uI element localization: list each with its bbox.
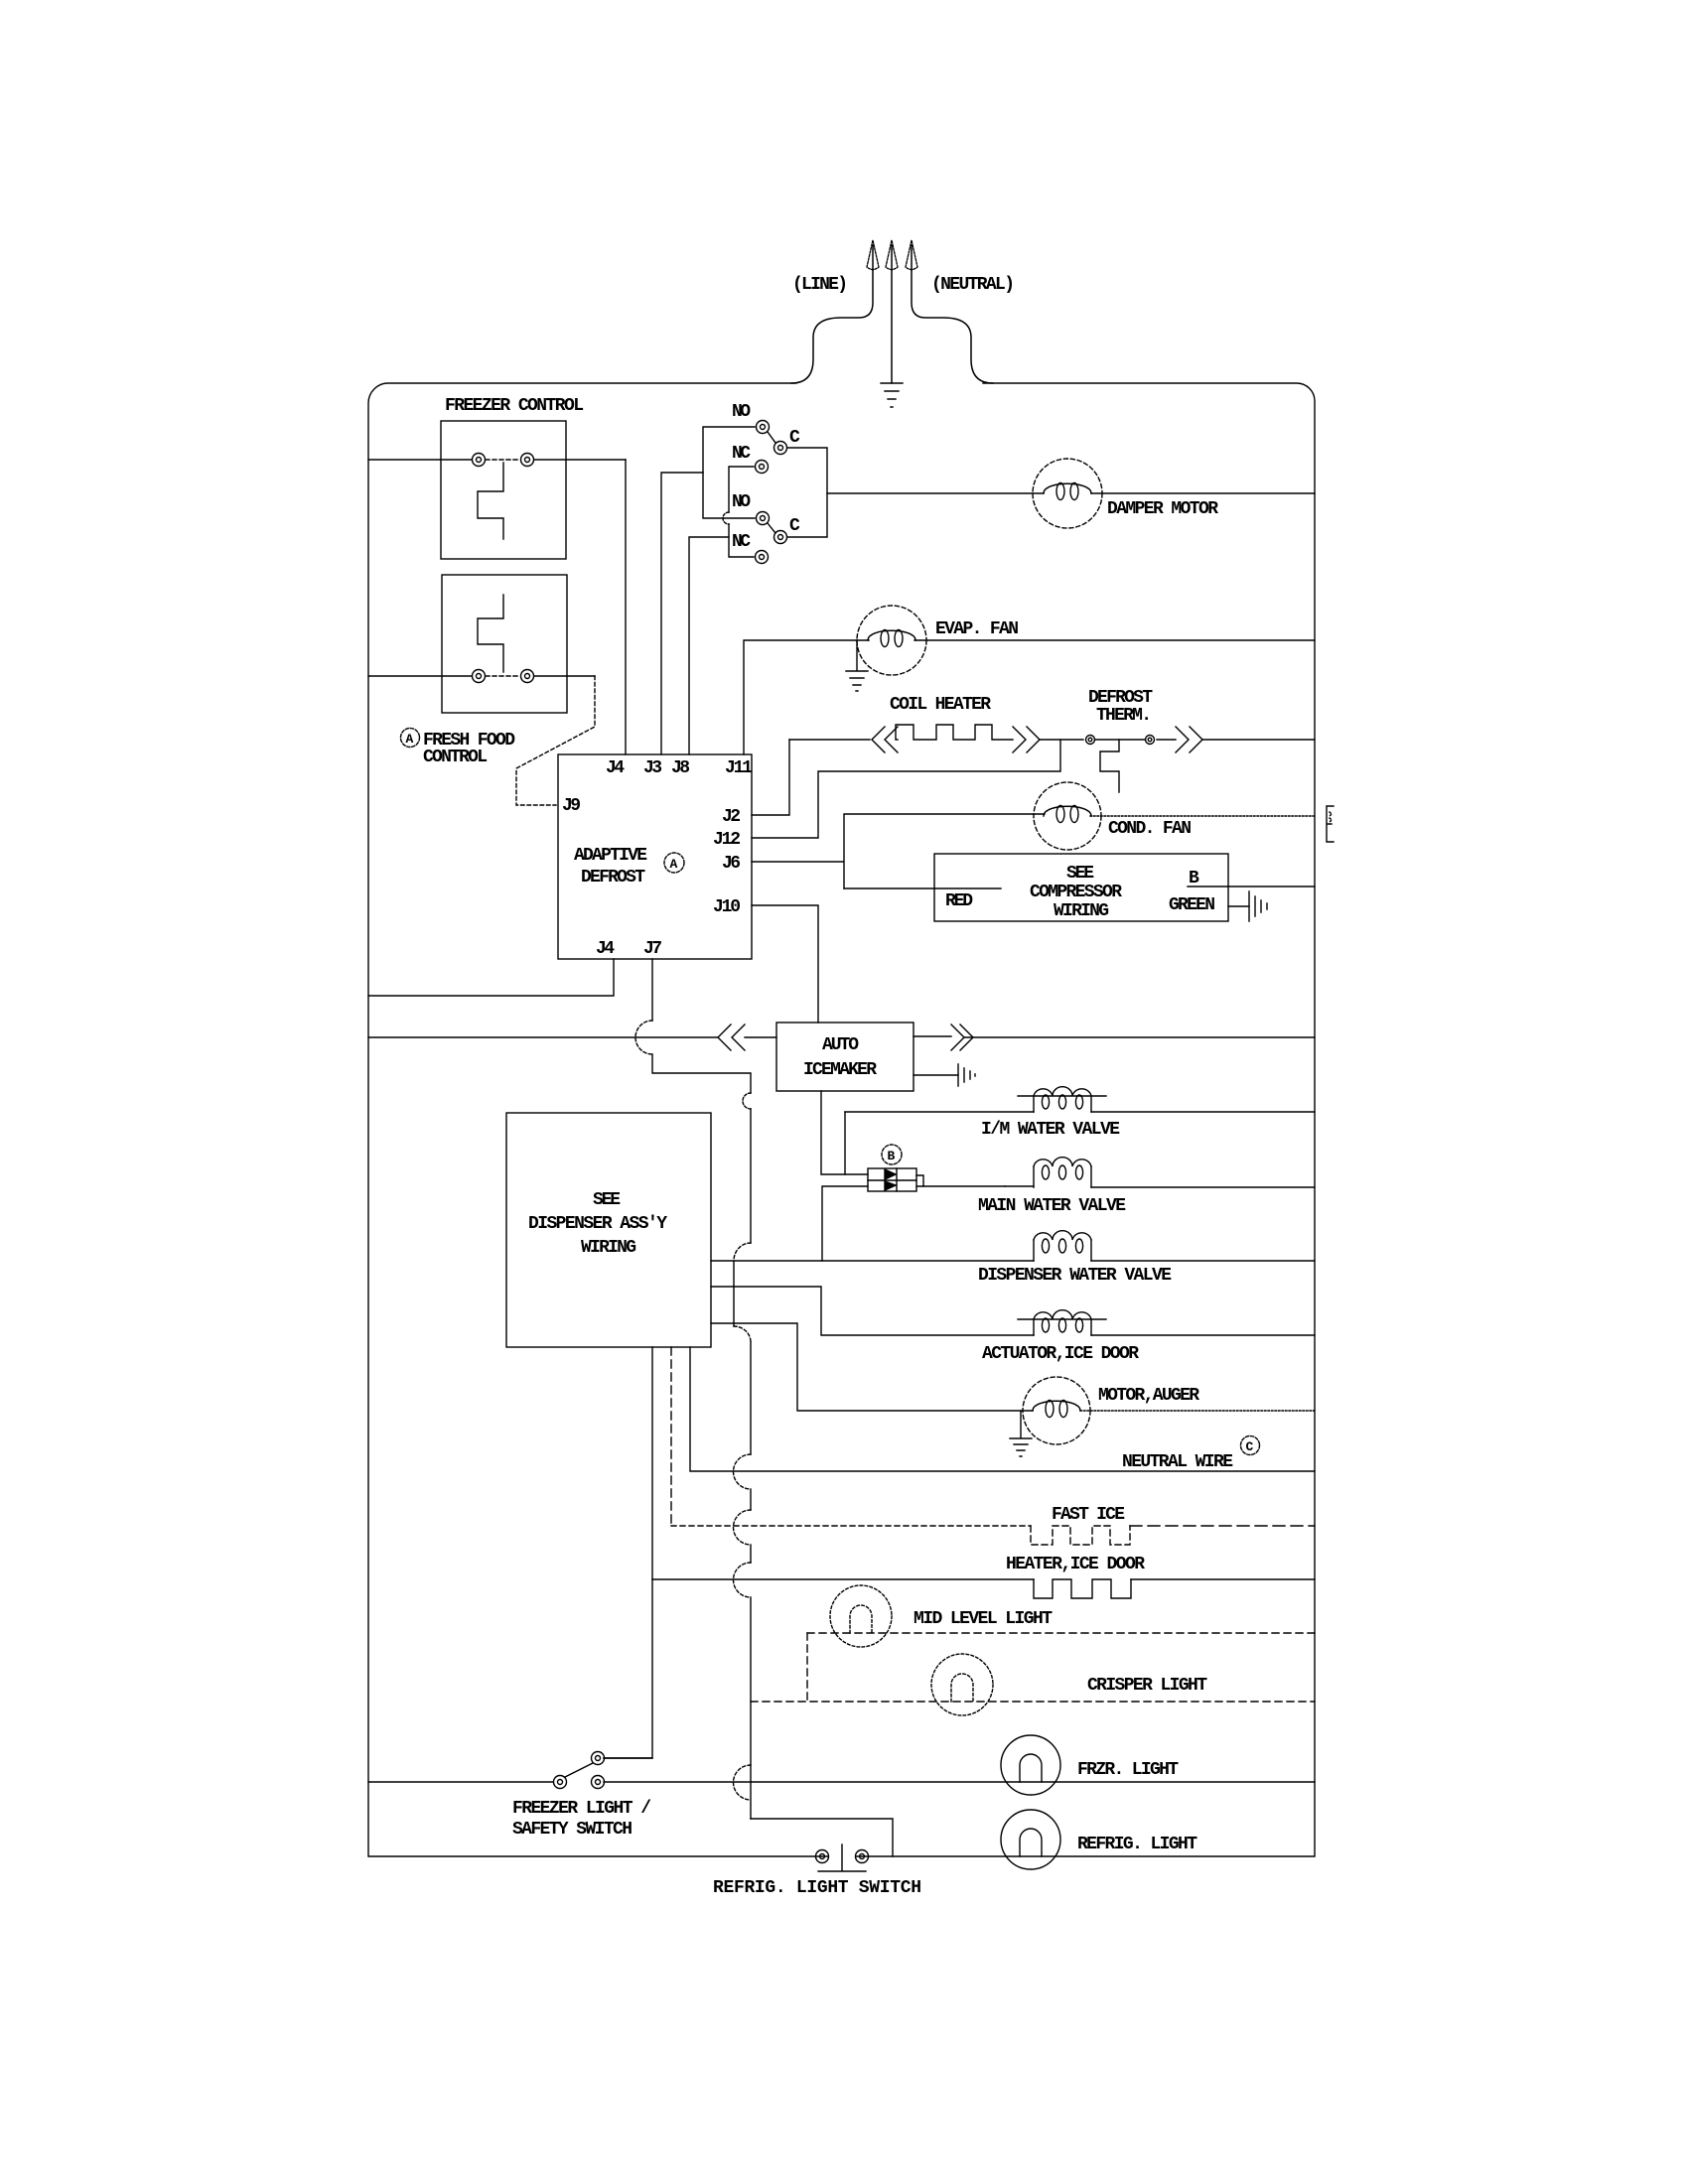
- actuator ice door coil: [1034, 1319, 1091, 1335]
- svg-text:DISPENSER WATER VALVE: DISPENSER WATER VALVE: [978, 1266, 1172, 1286]
- compressor wiring box: [934, 854, 1228, 921]
- fresh food contact left: [473, 670, 486, 683]
- door switch 1 C contact: [774, 442, 787, 455]
- svg-text:DAMPER MOTOR: DAMPER MOTOR: [1107, 499, 1218, 519]
- dashed wire to J9 of adaptive defrost: [516, 676, 595, 805]
- door switch 2 NC contact: [756, 551, 769, 564]
- crisper light dashed wire: [751, 1701, 1315, 1703]
- wire safety switch upper contact to dispenser bundle: [604, 1757, 652, 1759]
- freezer thermostat 1 sensing staircase: [478, 463, 503, 539]
- door switch 2 NO contact: [757, 512, 770, 525]
- svg-text:THERM.: THERM.: [1096, 706, 1152, 726]
- fresh food contact right: [521, 670, 534, 683]
- svg-text:NEUTRAL WIRE: NEUTRAL WIRE: [1122, 1452, 1233, 1472]
- wire actuator to right border: [1091, 1334, 1315, 1336]
- svg-text:GREEN: GREEN: [1169, 895, 1215, 915]
- damper motor coil arch: [1044, 483, 1091, 493]
- connector chevrons icemaker left: [718, 1024, 745, 1050]
- freezer thermostat 1 contact left: [473, 454, 486, 467]
- svg-text:MAIN WATER VALVE: MAIN WATER VALVE: [978, 1196, 1126, 1216]
- svg-text:WIRING: WIRING: [581, 1238, 636, 1258]
- svg-text:ADAPTIVE: ADAPTIVE: [574, 846, 647, 866]
- circled A fresh food: [401, 729, 420, 748]
- fresh food sensing staircase: [478, 595, 503, 672]
- diode pack right tab: [916, 1175, 923, 1186]
- freezer control thermostat box 1: [441, 421, 566, 559]
- wire common to damper motor: [827, 492, 1044, 494]
- hop arc bundle over neutral wire: [734, 1454, 752, 1489]
- fresh food control thermostat box 2: [442, 575, 567, 713]
- svg-text:DEFROST: DEFROST: [581, 868, 645, 887]
- auger motor ground: [1010, 1411, 1032, 1456]
- circled A adaptive defrost: [664, 853, 684, 873]
- svg-text:FRZR. LIGHT: FRZR. LIGHT: [1077, 1760, 1179, 1780]
- bundle wire x756 down to neutral hop: [750, 1342, 752, 1454]
- wire fresh food contact to J9 dashes: [534, 675, 595, 677]
- door switch J3 branch wire: [661, 473, 703, 754]
- dispenser box bottom wire to safety switch: [651, 1347, 653, 1579]
- wire chevrons to icemaker box: [745, 1036, 776, 1038]
- refrig light lamp circle: [1001, 1810, 1060, 1869]
- svg-text:MOTOR,AUGER: MOTOR,AUGER: [1098, 1386, 1199, 1406]
- mid level light filament: [850, 1605, 872, 1633]
- coil heater resistive element: [896, 725, 1013, 740]
- fast ice dashed wire to right border: [1130, 1525, 1315, 1527]
- svg-text:DISPENSER ASS'Y: DISPENSER ASS'Y: [528, 1214, 667, 1234]
- mid level dashed drop to crisper wire: [806, 1633, 808, 1702]
- safety switch upper contact: [592, 1752, 605, 1765]
- wire J4 vertical drop to adaptive defrost: [625, 460, 627, 754]
- svg-text:COMPRESSOR: COMPRESSOR: [1030, 883, 1122, 902]
- refrig light switch right contact: [856, 1850, 869, 1863]
- svg-text:(NEUTRAL): (NEUTRAL): [931, 275, 1015, 295]
- wire from left border to fresh food contacts: [368, 675, 472, 677]
- adaptive defrost control box: [558, 754, 752, 959]
- wire J6 node to compressor RED: [844, 887, 1001, 889]
- wire icemaker right to chevrons: [914, 1035, 951, 1037]
- circled B diode pack: [882, 1145, 902, 1164]
- dotted wire auger motor to right border: [1080, 1410, 1315, 1412]
- wire between defrost therm contacts: [1095, 739, 1145, 741]
- connector chevrons icemaker right: [951, 1024, 973, 1050]
- svg-text:J8: J8: [671, 758, 690, 778]
- I/M water valve coil: [1034, 1096, 1091, 1112]
- freezer thermostat 1 contact right: [521, 454, 534, 467]
- wire chevrons to defrost therm: [1040, 739, 1083, 741]
- frzr light lamp circle: [1001, 1735, 1060, 1795]
- hop arc bundle over fast ice wire: [734, 1510, 752, 1545]
- svg-text:REFRIG. LIGHT SWITCH: REFRIG. LIGHT SWITCH: [713, 1878, 921, 1898]
- hop arc J7 wire over icemaker wire: [635, 1021, 652, 1054]
- frzr light filament: [1020, 1754, 1042, 1782]
- wire compressor green to ground: [1228, 905, 1249, 907]
- icemaker feed wire from left border: [368, 1036, 718, 1038]
- junction drop from coil heater wire to J12 feed: [752, 740, 1060, 838]
- svg-text:NO: NO: [732, 402, 751, 422]
- svg-text:COIL HEATER: COIL HEATER: [890, 695, 991, 715]
- freezer light wire to frzr lamp and border: [604, 1781, 1315, 1783]
- svg-text:RED: RED: [945, 891, 973, 911]
- connector chevrons coil heater left: [872, 727, 898, 752]
- safety switch blade: [565, 1763, 593, 1777]
- svg-text:C: C: [789, 516, 800, 536]
- dispenser box bottom dashed wire to fast ice: [670, 1347, 672, 1526]
- see dispenser assy wiring box: [506, 1113, 711, 1347]
- svg-text:J12: J12: [713, 830, 741, 850]
- wire J6 to cond fan and compressor: [752, 814, 1045, 888]
- wire evap fan to right border: [914, 639, 1315, 641]
- svg-text:SAFETY SWITCH: SAFETY SWITCH: [512, 1820, 633, 1840]
- wire icemaker bottom to diode pack: [821, 1091, 868, 1174]
- svg-text:C: C: [1246, 1439, 1254, 1454]
- diode pack body: [868, 1168, 916, 1191]
- svg-text:COND. FAN: COND. FAN: [1108, 819, 1192, 839]
- svg-text:B: B: [888, 1149, 896, 1163]
- bundle wire between hops: [750, 1545, 752, 1563]
- wire J11 to evap fan: [744, 640, 869, 754]
- wire J4 bottom to left border: [368, 959, 614, 996]
- damper motor coil loops: [1056, 483, 1064, 500]
- coil heater wire left segment: [789, 739, 870, 741]
- svg-text:FREEZER LIGHT /: FREEZER LIGHT /: [512, 1799, 651, 1819]
- cond fan circle: [1034, 782, 1101, 850]
- wire J7 bottom to bundle: [651, 959, 653, 1021]
- safety switch moving contact: [554, 1776, 567, 1789]
- door switch 2 blade: [768, 523, 775, 533]
- door switch 1 wire NO to vertical: [703, 427, 755, 518]
- refrig light filament: [1020, 1829, 1042, 1856]
- hop arc bundle over heater wire: [734, 1563, 752, 1597]
- door switch J8 branch wire: [689, 537, 729, 754]
- motor auger coil arch: [1033, 1401, 1080, 1411]
- svg-text:A: A: [406, 732, 414, 747]
- mid level light lamp circle: [830, 1585, 892, 1647]
- wire I/M valve to right border: [1091, 1111, 1315, 1113]
- wire icemaker to ground right side: [914, 1074, 958, 1076]
- cond fan coil loops: [1056, 806, 1064, 823]
- freezer thermostat 1 dashed contact link: [486, 459, 520, 461]
- crisper light lamp circle: [931, 1654, 993, 1715]
- svg-text:ACTUATOR,ICE DOOR: ACTUATOR,ICE DOOR: [982, 1344, 1139, 1364]
- hop arc bundle over freezer light wire: [734, 1765, 752, 1800]
- svg-text:ICEMAKER: ICEMAKER: [803, 1060, 877, 1080]
- wire compressor B to right border: [1188, 886, 1315, 887]
- door switch 1 blade: [768, 432, 775, 443]
- svg-text:J2: J2: [722, 807, 741, 827]
- wire dispenser box to actuator ice door: [711, 1287, 1034, 1335]
- plug prong NEUTRAL: [912, 270, 993, 383]
- hop arc empty on bundle: [743, 1093, 751, 1109]
- border outer rounded rectangle: [368, 383, 1315, 1856]
- svg-text:SEE: SEE: [1066, 864, 1094, 884]
- svg-text:FREEZER CONTROL: FREEZER CONTROL: [445, 396, 584, 416]
- refrig light switch plunger: [818, 1844, 866, 1871]
- svg-text:I/M WATER VALVE: I/M WATER VALVE: [981, 1120, 1120, 1140]
- fast ice heater element dashed: [1031, 1526, 1130, 1545]
- plug prong LINE: [791, 270, 873, 383]
- svg-text:SEE: SEE: [593, 1190, 621, 1210]
- motor auger coil loops: [1046, 1401, 1054, 1418]
- ground symbol below center prong: [881, 383, 903, 407]
- svg-text:NO: NO: [732, 492, 751, 512]
- wire dispenser valve from box to coil: [711, 1260, 1034, 1262]
- wire I/M valve line down to diode node: [844, 1112, 846, 1174]
- connector chevrons defrost therm right: [1176, 727, 1202, 752]
- svg-text:J6: J6: [722, 854, 741, 874]
- refrig light switch left contact: [816, 1850, 829, 1863]
- svg-text:CRISPER LIGHT: CRISPER LIGHT: [1087, 1676, 1207, 1696]
- wire damper motor to right border: [1091, 492, 1315, 494]
- wire dispenser box to auger motor: [711, 1323, 1033, 1411]
- svg-text:B: B: [1189, 869, 1199, 888]
- defrost therm capillary staircase: [1100, 740, 1119, 792]
- svg-text:A: A: [670, 857, 678, 872]
- wire diode bottom row to dispenser valve line: [822, 1186, 868, 1261]
- wire J2 to coil heater line: [752, 740, 789, 815]
- jog arc bundle back to x756: [734, 1326, 751, 1342]
- defrost therm contact 1: [1086, 736, 1095, 745]
- evap fan coil arch: [868, 630, 915, 640]
- wire main valve left stub: [1005, 1185, 1034, 1187]
- bundle wire to crisper junction and down: [750, 1597, 752, 1819]
- diode triangle top: [885, 1169, 896, 1179]
- evap fan circle: [857, 606, 926, 675]
- bundle wire segment at x739: [733, 1261, 735, 1326]
- damper motor circle: [1033, 459, 1102, 528]
- diode triangle bottom: [885, 1181, 896, 1190]
- mid level light dashed wire: [807, 1632, 1315, 1634]
- svg-text:J7: J7: [643, 939, 662, 959]
- fresh food dashed contact link: [486, 675, 520, 677]
- evap fan coil loops: [881, 630, 889, 647]
- svg-text:J3: J3: [643, 758, 662, 778]
- svg-text:MID LEVEL LIGHT: MID LEVEL LIGHT: [914, 1609, 1053, 1629]
- svg-text:J9: J9: [562, 796, 581, 816]
- safety switch right contact: [592, 1776, 605, 1789]
- ground right-facing at icemaker: [958, 1064, 975, 1086]
- svg-text:WIRING: WIRING: [1054, 901, 1109, 921]
- svg-text:HEATER,ICE DOOR: HEATER,ICE DOOR: [1006, 1555, 1145, 1574]
- defrost therm contact 2: [1146, 736, 1155, 745]
- bundle wire from J7 down with jogs: [750, 1109, 752, 1243]
- door switch 1 NC contact: [756, 461, 769, 474]
- bundle wire bottom to refrig light wire: [751, 1819, 893, 1856]
- wire defrost therm to right border: [1202, 739, 1315, 741]
- wire J10 to auto icemaker top: [752, 905, 818, 1023]
- plug prong center: [891, 270, 893, 383]
- cond fan coil arch: [1044, 806, 1091, 816]
- svg-text:J4: J4: [606, 758, 625, 778]
- wire icemaker chevrons to right border: [964, 1036, 1315, 1038]
- dispenser water valve coil: [1034, 1240, 1091, 1261]
- dispenser box bottom wire to neutral: [690, 1347, 1315, 1471]
- svg-text:J11: J11: [725, 758, 753, 778]
- wire I/M valve left stub: [845, 1111, 1034, 1113]
- svg-text:EVAP. FAN: EVAP. FAN: [935, 619, 1019, 639]
- evap fan ground: [846, 640, 868, 691]
- wire main valve to right border: [1091, 1186, 1315, 1188]
- svg-text:CONTROL: CONTROL: [423, 748, 488, 767]
- freezer light safety switch wire from border: [368, 1781, 553, 1783]
- heater ice door wire left: [652, 1578, 1034, 1580]
- wire dispenser valve to right border: [1091, 1260, 1315, 1262]
- motor auger circle: [1023, 1377, 1090, 1444]
- svg-text:C: C: [789, 428, 800, 448]
- svg-text:FAST ICE: FAST ICE: [1052, 1505, 1125, 1525]
- heater ice door wire to right border: [1131, 1578, 1315, 1580]
- dotted wire cond fan to right border: [1090, 815, 1315, 817]
- circled C neutral wire: [1241, 1436, 1260, 1455]
- bundle wire between hops: [750, 1489, 752, 1510]
- hop arc at NC vertical over NO wire: [723, 512, 729, 524]
- svg-text:J4: J4: [596, 939, 615, 959]
- svg-text:NC: NC: [732, 444, 751, 464]
- wire freezer contact to J4 drop: [534, 459, 626, 461]
- wire from left border to freezer control contacts: [368, 459, 472, 461]
- heater ice door element: [1034, 1579, 1131, 1598]
- crisper light filament: [951, 1674, 973, 1702]
- auto icemaker box: [776, 1023, 914, 1091]
- svg-text:REFRIG. LIGHT: REFRIG. LIGHT: [1077, 1835, 1197, 1854]
- door switch 1 NO contact: [757, 421, 770, 434]
- door switch 2 C contact: [774, 531, 787, 544]
- connector chevrons coil heater right: [1013, 727, 1040, 752]
- svg-text:J10: J10: [713, 897, 741, 917]
- svg-text:(LINE): (LINE): [792, 275, 848, 295]
- right edge artifact bracket: [1327, 806, 1334, 842]
- wire NC1 to NC2 vertical with hop over NO wire: [729, 467, 754, 512]
- main water valve coil: [1034, 1166, 1091, 1187]
- jog arc bundle onto dispenser valve wire: [734, 1243, 751, 1261]
- wire defrost therm to chevrons: [1157, 739, 1176, 741]
- wire diode output to main water valve: [923, 1185, 1005, 1187]
- wire C1 and C2 to damper motor line: [787, 448, 827, 537]
- svg-text:AUTO: AUTO: [822, 1035, 859, 1055]
- svg-text:DEFROST: DEFROST: [1088, 688, 1153, 708]
- ground right-facing at compressor: [1249, 891, 1267, 921]
- svg-text:NC: NC: [732, 532, 751, 552]
